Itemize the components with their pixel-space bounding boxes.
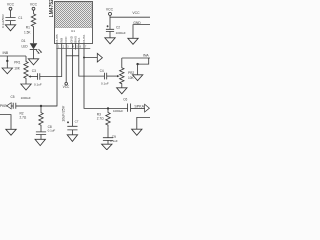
resistor R3	[97, 108, 110, 127]
ground	[2, 68, 12, 74]
svg-text:VCC: VCC	[7, 3, 15, 7]
wire pin4 down to C7	[71, 50, 73, 127]
connector OUTA arrow	[97, 53, 102, 62]
wire	[71, 130, 73, 135]
svg-text:0.1uF: 0.1uF	[101, 82, 109, 86]
junction	[107, 107, 109, 109]
ground	[28, 59, 38, 65]
junction	[6, 60, 8, 62]
potentiometer PR2	[117, 58, 135, 88]
wire rail to C6	[108, 107, 127, 109]
wire	[10, 10, 12, 17]
wire VCC jog pin3 to pin6 column	[66, 55, 79, 57]
svg-text:C4: C4	[100, 69, 104, 73]
wire C4 to wiper	[107, 75, 117, 77]
wire down to C2	[109, 17, 111, 29]
wire	[107, 141, 109, 145]
junction	[40, 105, 42, 107]
svg-text:SPKA: SPKA	[134, 104, 144, 108]
capacitor C9	[103, 128, 118, 143]
wire SPKA return	[137, 117, 150, 129]
capacitor C8	[36, 125, 56, 134]
IC U1 LM4752 package	[49, 0, 92, 44]
node VCC (below IC)	[63, 82, 70, 89]
wire	[33, 50, 35, 59]
svg-text:INA: INA	[143, 53, 149, 57]
wire	[109, 32, 111, 38]
wire	[40, 135, 42, 140]
ground	[128, 38, 138, 44]
pin 1	[56, 44, 58, 50]
resistor R1	[24, 14, 36, 35]
pin 2	[61, 44, 63, 50]
capacitor C4	[100, 69, 109, 85]
svg-text:VCC: VCC	[63, 85, 70, 89]
svg-text:PR1: PR1	[14, 60, 20, 64]
svg-text:OUTA: OUTA	[82, 35, 86, 43]
svg-text:2.7Ω: 2.7Ω	[97, 117, 104, 121]
svg-text:U1: U1	[71, 29, 75, 33]
capacitor C7	[62, 105, 79, 130]
node VCC (supply for R1/LED)	[30, 3, 38, 10]
wire OUTA branch down	[84, 58, 108, 109]
svg-text:INB: INB	[60, 38, 64, 43]
wire pin6 INA to C4	[79, 50, 105, 77]
wire SPKB return	[0, 115, 11, 130]
junction	[136, 63, 138, 65]
wire VCC rail	[110, 15, 150, 17]
ground	[105, 38, 115, 44]
wire	[33, 27, 35, 44]
wire to junction	[16, 105, 57, 107]
svg-text:LED: LED	[22, 44, 29, 48]
svg-text:10uF/25V: 10uF/25V	[62, 105, 66, 122]
node INA input	[122, 53, 150, 58]
wire pin1 OUTB down to output rail	[16, 50, 57, 107]
svg-text:1000uF: 1000uF	[21, 96, 31, 100]
node VCC (top-left supply for C1)	[7, 3, 15, 10]
pin 4	[71, 44, 73, 50]
svg-text:PR2: PR2	[128, 71, 134, 75]
pin 5	[74, 44, 76, 50]
svg-text:VCC: VCC	[30, 3, 38, 7]
wire wiper to C3	[31, 76, 38, 78]
svg-text:1000uF: 1000uF	[116, 31, 126, 35]
svg-text:0.1uF: 0.1uF	[34, 82, 42, 86]
svg-text:10K: 10K	[128, 76, 135, 80]
svg-text:C2: C2	[116, 26, 120, 30]
svg-text:2.7Ω: 2.7Ω	[20, 116, 27, 120]
node INB input	[0, 51, 26, 56]
wire	[11, 105, 13, 107]
node VCC (top right)	[106, 7, 114, 15]
capacitor C6	[113, 98, 131, 114]
svg-text:LM4752: LM4752	[49, 0, 55, 17]
svg-text:1.5K: 1.5K	[24, 31, 31, 35]
ground	[35, 139, 45, 145]
svg-text:SPKB: SPKB	[0, 104, 7, 108]
pin number row	[56, 47, 90, 49]
svg-text:C6: C6	[123, 98, 127, 102]
ground	[67, 135, 77, 142]
svg-text:1000uF: 1000uF	[113, 109, 123, 113]
capacitor C2	[106, 25, 126, 35]
capacitor C3	[32, 69, 42, 86]
svg-text:0.1uF: 0.1uF	[110, 139, 118, 143]
ground	[21, 84, 31, 90]
svg-text:VCC: VCC	[106, 7, 114, 11]
connector SPKB	[0, 103, 11, 109]
ground	[132, 129, 142, 135]
wire pin2 INB to C3	[40, 50, 62, 77]
svg-text:C5: C5	[11, 95, 15, 99]
svg-text:C3: C3	[32, 69, 36, 73]
wire input tap jog	[138, 58, 149, 75]
connector SPKA	[134, 104, 149, 112]
wire	[10, 21, 12, 25]
svg-text:C7: C7	[75, 119, 79, 123]
svg-text:D1: D1	[22, 39, 26, 43]
svg-text:VCC: VCC	[132, 11, 140, 15]
svg-text:INB: INB	[3, 51, 9, 55]
svg-text:VCC: VCC	[64, 36, 68, 43]
LED D1	[22, 39, 43, 54]
svg-text:R1: R1	[26, 26, 30, 30]
ground	[5, 25, 15, 31]
junction	[83, 57, 85, 59]
svg-text:0.1uF/50V: 0.1uF/50V	[1, 14, 5, 28]
svg-text:10K: 10K	[14, 66, 21, 70]
ground	[117, 88, 127, 94]
wire pin7 OUTA	[84, 50, 97, 58]
capacitor C5	[11, 95, 31, 109]
net GND stub	[133, 21, 150, 39]
wire pin3 VCC to terminal	[65, 50, 67, 83]
svg-text:INA: INA	[77, 38, 81, 43]
ground	[132, 75, 142, 81]
pin 6	[78, 44, 80, 50]
ground	[102, 144, 112, 150]
wire	[33, 10, 35, 14]
pin 3	[65, 44, 67, 50]
svg-text:C1: C1	[18, 16, 22, 20]
potentiometer PR1	[14, 56, 31, 84]
wire C6 to connector	[131, 107, 145, 109]
svg-text:OUTB: OUTB	[55, 34, 59, 42]
svg-text:0.1uF: 0.1uF	[48, 129, 56, 133]
resistor R2	[20, 106, 44, 132]
pin 7	[83, 44, 85, 50]
wire input tap	[6, 56, 8, 68]
ground	[6, 129, 16, 135]
capacitor C1	[1, 14, 23, 28]
